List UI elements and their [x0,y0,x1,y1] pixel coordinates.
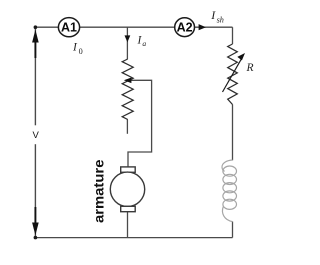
junction node bottom-left [34,236,38,240]
wire left branch lower [34,144,36,237]
svg-text:R: R [246,62,254,74]
wire bottom bus [35,237,232,239]
inductor field coil loop 4 [223,191,237,201]
inductor field coil loop 2 [223,174,237,184]
wire right branch top lead to R [232,27,234,44]
svg-text:A2: A2 [177,21,193,35]
voltage arrow up (top of V) [32,30,39,43]
variable-resistor arrow through R [223,58,243,92]
inductor field coil exit hook [222,207,232,222]
rheostat wiper arrowhead [124,78,132,84]
ammeter A2 [175,18,195,37]
motor armature body M1 [110,172,144,206]
wire rheostat wiper tap to armature [128,80,152,167]
motor armature top brush [121,167,136,172]
wire left branch upper (supply +) [34,27,36,125]
wire right branch between R and field coil [232,105,234,161]
wire armature to bottom bus [127,212,129,238]
svg-text:a: a [142,39,146,48]
junction node top-left [34,25,38,29]
svg-text:A1: A1 [61,21,77,35]
svg-text:V: V [33,130,40,141]
motor armature bottom brush [121,206,136,211]
voltage arrow down (bottom of V) [32,223,39,236]
current arrow Ish [199,24,206,30]
resistor R (shunt field rheostat) [228,44,238,105]
wire middle branch open stub below rheostat [126,120,128,134]
wire right branch below field coil [232,222,234,238]
inductor field coil loop 3 [223,183,237,193]
current arrow Ia [125,35,131,42]
resistor rheostat (middle branch) [122,59,133,120]
inductor field coil loop 5 [223,199,237,209]
inductor field coil loop 1 [223,166,237,176]
wire top bus [35,26,232,28]
ammeter A1 [58,18,79,37]
inductor field coil entry hook [222,160,233,171]
svg-text:armature: armature [91,159,107,223]
svg-text:sh: sh [217,16,224,25]
svg-text:0: 0 [79,47,83,56]
wire middle branch top lead [126,27,128,59]
